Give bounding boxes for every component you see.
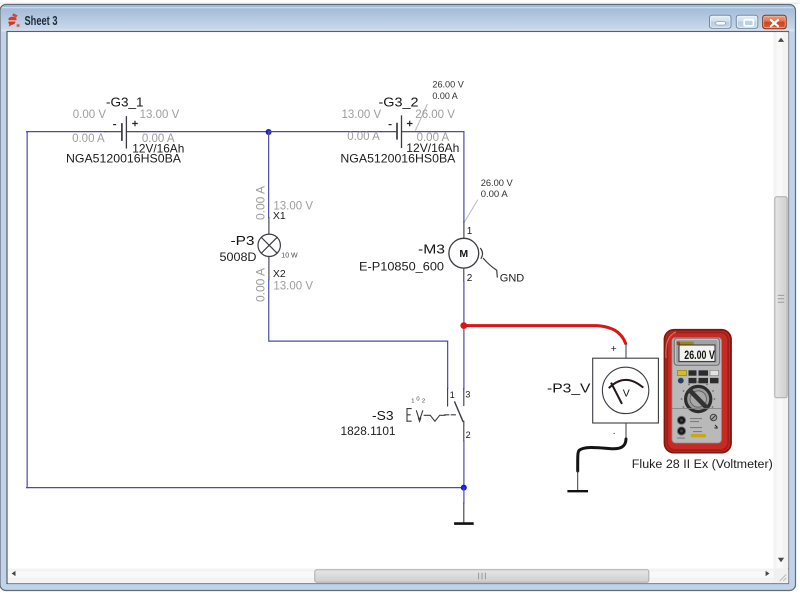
- svg-text:Fluke 28 II Ex (Voltmeter): Fluke 28 II Ex (Voltmeter): [632, 459, 773, 471]
- svg-text:13.00 V: 13.00 V: [273, 281, 313, 293]
- svg-text:0: 0: [416, 396, 419, 402]
- v down arrow: [778, 558, 784, 562]
- svg-text:2: 2: [422, 398, 425, 404]
- wire lead into G3_1: [105, 131, 121, 133]
- motor M3 brush arc: [481, 249, 483, 259]
- leader line G3_2 values: [416, 105, 428, 131]
- svg-text:+: +: [611, 343, 617, 355]
- switch S3 blade: [455, 402, 463, 421]
- battery G3_1 polarity: [113, 121, 138, 127]
- svg-text:0.00 A: 0.00 A: [254, 186, 268, 220]
- svg-text:26.00 V: 26.00 V: [415, 109, 455, 121]
- wire junction to ground: [463, 488, 465, 503]
- wire red measurement net: [464, 326, 626, 344]
- svg-text:26.00 V: 26.00 V: [481, 178, 514, 189]
- scrollbar corner: [774, 569, 789, 584]
- switch S3 pin3 lead: [463, 389, 465, 406]
- switch S3 actuator dashes: [445, 414, 456, 416]
- panel divider: [672, 408, 721, 410]
- wire junction to G3_2: [269, 131, 381, 133]
- wire bottom horizontal: [27, 487, 464, 489]
- probe ground: [569, 490, 587, 492]
- h left arrow: [12, 571, 16, 576]
- v up arrow: [778, 38, 784, 42]
- svg-text:5008D: 5008D: [220, 252, 257, 264]
- bottom yellow strip: [691, 434, 706, 437]
- svg-text:0.00 A: 0.00 A: [254, 268, 268, 302]
- wire G3_1 to junction: [144, 131, 269, 133]
- switch S3 pin2 lead: [463, 421, 465, 441]
- lamp P3 lead bottom: [268, 256, 270, 280]
- minimize button: [710, 15, 732, 28]
- svg-text:0.00 A: 0.00 A: [72, 133, 105, 145]
- svg-text:M: M: [459, 248, 468, 260]
- wire top: left segment to battery G3_1: [27, 131, 105, 133]
- svg-text:1: 1: [450, 390, 455, 400]
- leader line M3 values: [464, 200, 477, 223]
- svg-text:.: .: [613, 426, 616, 437]
- battery G3_2 polarity: [389, 121, 413, 127]
- svg-text:2: 2: [467, 273, 473, 284]
- svg-text:-P3_V: -P3_V: [547, 380, 591, 395]
- lamp P3 cross: [261, 237, 277, 253]
- wire lead into G3_2: [381, 131, 396, 133]
- knob ticks: [681, 381, 716, 408]
- h right arrow: [766, 571, 770, 576]
- svg-text:3: 3: [465, 390, 470, 400]
- svg-text:NGA5120016HS0BA: NGA5120016HS0BA: [66, 151, 181, 165]
- switch S3 detent zigzag: [424, 415, 445, 421]
- fluke logo: [677, 342, 694, 345]
- cat marking: [710, 414, 717, 421]
- voltmeter needle: [612, 384, 622, 404]
- h thumb: [315, 570, 649, 582]
- motor M3 GND lead: [484, 259, 498, 278]
- lamp P3: [258, 234, 280, 256]
- wire switch to bottom junction: [463, 441, 465, 488]
- wire lead out of G3_2: [402, 131, 417, 133]
- switch S3 pin1 lead: [447, 389, 449, 407]
- node bottom junction: [461, 485, 467, 491]
- svg-text:2: 2: [466, 430, 471, 440]
- svg-text:0.00 A: 0.00 A: [432, 91, 458, 102]
- lamp P3 lead top: [268, 218, 270, 235]
- battery G3_2: [397, 116, 402, 147]
- battery G3_1: [122, 117, 127, 148]
- svg-text:1: 1: [411, 398, 414, 404]
- svg-text:26.00 V: 26.00 V: [684, 350, 715, 362]
- ground: [455, 522, 472, 525]
- svg-text:-G3_2: -G3_2: [379, 95, 419, 110]
- wire lamp to corner: [269, 280, 448, 389]
- motor M3 lead bottom: [463, 268, 465, 281]
- meter face panel: [672, 338, 722, 444]
- voltmeter minus lead: [625, 423, 627, 439]
- node junction top: [266, 129, 272, 135]
- wire left vertical: [26, 132, 28, 488]
- probe thin lead: [577, 471, 579, 490]
- svg-text:13.00 V: 13.00 V: [273, 200, 313, 212]
- LCD bezel: [674, 338, 719, 365]
- small panel text marks: [677, 418, 702, 439]
- svg-text:26.00 V: 26.00 V: [432, 79, 464, 90]
- switch S3 E glyph: [407, 409, 411, 422]
- voltmeter P3_V dial: [602, 367, 648, 413]
- app icon: [8, 13, 19, 27]
- svg-text:0.00 A: 0.00 A: [347, 131, 380, 143]
- svg-text:-M3: -M3: [418, 242, 445, 257]
- maximize button: [736, 15, 758, 28]
- wire M3 to switch: [463, 282, 465, 389]
- motor M3: [449, 238, 479, 268]
- wire G3_2 to corner: [418, 132, 464, 222]
- svg-text:-P3: -P3: [231, 233, 255, 248]
- motor M3 lead top: [463, 222, 465, 238]
- svg-text:GND: GND: [500, 272, 525, 284]
- svg-text:0.00 V: 0.00 V: [73, 109, 107, 121]
- svg-text:10 W: 10 W: [281, 252, 298, 259]
- ground lead: [463, 503, 465, 523]
- horizontal scrollbar track: [8, 569, 774, 584]
- svg-text:1828.1101: 1828.1101: [341, 426, 396, 438]
- close button: [763, 15, 787, 28]
- lamp branch: wire junction down: [268, 132, 270, 218]
- svg-text:1: 1: [467, 226, 473, 237]
- probe wire black: [578, 439, 626, 471]
- input jack 1: [677, 416, 685, 424]
- input jack 2: [677, 427, 685, 435]
- svg-text:E-P10850_600: E-P10850_600: [359, 261, 444, 273]
- meter body: [665, 330, 732, 453]
- svg-text:-S3: -S3: [372, 408, 394, 423]
- svg-text:0.00 A: 0.00 A: [481, 189, 509, 200]
- svg-text:-G3_1: -G3_1: [106, 95, 144, 110]
- LCD: [679, 345, 715, 362]
- voltmeter P3_V box: [593, 358, 659, 423]
- button row 2: [678, 378, 684, 384]
- node red junction: [460, 322, 467, 329]
- svg-text:NGA5120016HS0BA: NGA5120016HS0BA: [340, 151, 455, 165]
- button row 1: [678, 370, 687, 375]
- svg-text:V: V: [623, 387, 630, 399]
- title bar: [1, 6, 795, 32]
- voltmeter scale arc: [610, 380, 643, 388]
- switch S3 manual actuator V arrow: [416, 411, 422, 420]
- voltmeter + lead: [625, 344, 627, 359]
- svg-text:Sheet 3: Sheet 3: [25, 14, 58, 28]
- svg-text:13.00 V: 13.00 V: [140, 109, 180, 121]
- vertical scrollbar track: [774, 32, 789, 568]
- svg-text:X2: X2: [273, 268, 286, 280]
- wire lead out of G3_1: [127, 131, 144, 133]
- rotary knob: [686, 386, 711, 411]
- v thumb: [775, 197, 787, 398]
- svg-text:13.00 V: 13.00 V: [342, 109, 382, 121]
